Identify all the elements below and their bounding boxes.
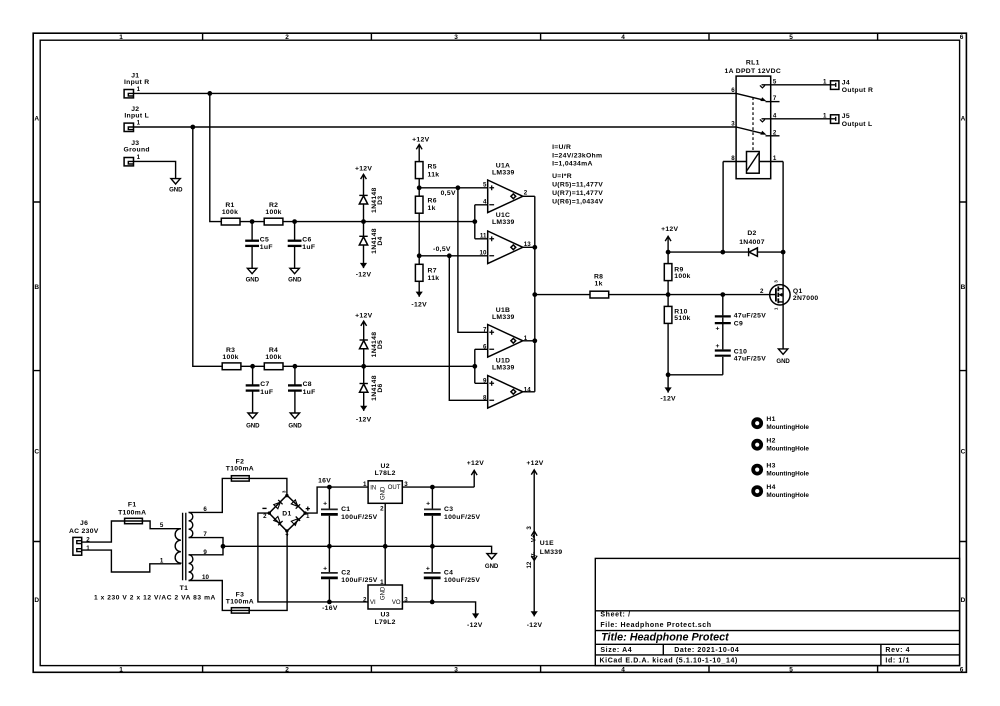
svg-text:1: 1 xyxy=(86,545,90,552)
svg-text:MountingHole: MountingHole xyxy=(766,470,809,477)
svg-text:RL1: RL1 xyxy=(746,59,760,66)
svg-text:+12V: +12V xyxy=(412,136,429,143)
svg-text:Size: A4: Size: A4 xyxy=(600,647,632,654)
svg-text:0,5V: 0,5V xyxy=(441,190,456,197)
svg-text:LM339: LM339 xyxy=(492,314,515,321)
svg-text:MountingHole: MountingHole xyxy=(766,492,809,499)
svg-text:1: 1 xyxy=(119,34,123,41)
svg-text:2: 2 xyxy=(380,505,384,512)
svg-text:LM339: LM339 xyxy=(492,219,515,226)
svg-text:T100mA: T100mA xyxy=(226,466,254,473)
svg-text:13: 13 xyxy=(524,241,531,248)
svg-text:LM339: LM339 xyxy=(540,549,563,556)
svg-text:3: 3 xyxy=(773,280,778,283)
svg-text:B: B xyxy=(961,284,966,291)
svg-text:1k: 1k xyxy=(595,281,603,288)
svg-text:AC 230V: AC 230V xyxy=(69,528,99,535)
svg-text:1uF: 1uF xyxy=(260,244,273,251)
svg-text:1A DPDT 12VDC: 1A DPDT 12VDC xyxy=(725,68,782,75)
svg-text:1: 1 xyxy=(137,120,141,127)
svg-text:C9: C9 xyxy=(734,321,743,328)
svg-text:-12V: -12V xyxy=(527,622,543,629)
svg-text:VI: VI xyxy=(370,600,376,606)
svg-text:7: 7 xyxy=(483,326,487,333)
svg-text:100uF/25V: 100uF/25V xyxy=(444,577,480,584)
svg-text:4: 4 xyxy=(621,666,625,673)
svg-text:D6: D6 xyxy=(377,383,384,392)
svg-text:+12V: +12V xyxy=(355,312,372,319)
svg-text:1: 1 xyxy=(773,307,778,310)
svg-text:-12V: -12V xyxy=(356,271,372,278)
svg-text:+: + xyxy=(426,501,430,508)
svg-text:2: 2 xyxy=(363,596,367,603)
svg-text:D: D xyxy=(961,597,966,604)
svg-text:D2: D2 xyxy=(747,230,756,237)
svg-text:11: 11 xyxy=(480,233,487,240)
svg-text:2: 2 xyxy=(773,129,777,136)
svg-text:GND: GND xyxy=(485,563,499,570)
svg-text:C: C xyxy=(34,448,39,455)
svg-text:GND: GND xyxy=(246,276,260,283)
svg-text:2: 2 xyxy=(263,513,267,520)
svg-text:3: 3 xyxy=(282,490,287,493)
svg-text:R8: R8 xyxy=(594,274,603,281)
svg-text:3: 3 xyxy=(454,666,458,673)
svg-text:File: Headphone Protect.sch: File: Headphone Protect.sch xyxy=(600,622,711,629)
svg-text:J4: J4 xyxy=(842,79,850,86)
svg-text:IN: IN xyxy=(370,485,376,491)
svg-text:6: 6 xyxy=(960,666,964,673)
svg-text:6: 6 xyxy=(960,34,964,41)
svg-text:47uF/25V: 47uF/25V xyxy=(734,313,766,320)
svg-text:H2: H2 xyxy=(766,438,775,445)
svg-text:12: 12 xyxy=(526,561,533,568)
svg-text:Id: 1/1: Id: 1/1 xyxy=(885,658,910,665)
svg-text:4: 4 xyxy=(483,199,487,206)
svg-text:R6: R6 xyxy=(428,198,437,205)
svg-text:-12V: -12V xyxy=(467,622,483,629)
svg-text:100k: 100k xyxy=(674,273,690,280)
svg-text:C4: C4 xyxy=(444,570,453,577)
svg-text:R3: R3 xyxy=(226,347,235,354)
svg-text:100k: 100k xyxy=(222,209,238,216)
svg-text:T1: T1 xyxy=(180,585,189,592)
svg-text:A: A xyxy=(34,116,39,123)
svg-text:2N7000: 2N7000 xyxy=(793,295,819,302)
svg-text:GND: GND xyxy=(381,486,387,500)
svg-text:+: + xyxy=(716,326,720,333)
svg-text:Sheet: /: Sheet: / xyxy=(600,612,630,619)
svg-text:R5: R5 xyxy=(428,164,437,171)
svg-text:L79L2: L79L2 xyxy=(375,619,396,626)
svg-text:-16V: -16V xyxy=(322,605,338,612)
svg-text:1: 1 xyxy=(773,155,777,162)
svg-text:5: 5 xyxy=(160,522,164,529)
svg-text:I=24V/23kOhm: I=24V/23kOhm xyxy=(552,153,602,160)
svg-text:MountingHole: MountingHole xyxy=(766,424,809,431)
svg-text:U(R7)=11,477V: U(R7)=11,477V xyxy=(552,190,603,197)
svg-text:3: 3 xyxy=(526,526,533,530)
svg-text:C5: C5 xyxy=(260,237,269,244)
svg-text:U(R6)=1,0434V: U(R6)=1,0434V xyxy=(552,199,603,206)
svg-text:+12V: +12V xyxy=(467,460,484,467)
svg-text:8: 8 xyxy=(483,394,487,401)
svg-text:+12V: +12V xyxy=(526,460,543,467)
svg-text:1: 1 xyxy=(823,112,827,119)
svg-text:100k: 100k xyxy=(222,354,238,361)
svg-text:1uF: 1uF xyxy=(302,244,315,251)
svg-text:-12V: -12V xyxy=(411,301,427,308)
svg-text:10: 10 xyxy=(480,250,487,257)
svg-text:Rev: 4: Rev: 4 xyxy=(885,647,910,654)
svg-text:Title: Headphone Protect: Title: Headphone Protect xyxy=(601,632,729,644)
svg-text:11k: 11k xyxy=(428,275,440,282)
svg-text:100uF/25V: 100uF/25V xyxy=(444,514,480,521)
svg-text:-0,5V: -0,5V xyxy=(433,246,451,253)
svg-text:100k: 100k xyxy=(265,354,281,361)
svg-text:5: 5 xyxy=(773,78,777,85)
svg-text:1: 1 xyxy=(823,78,827,85)
svg-text:H1: H1 xyxy=(766,416,775,423)
svg-text:J5: J5 xyxy=(842,113,850,120)
svg-text:KiCad E.D.A. kicad (5.1.10-1-: KiCad E.D.A. kicad (5.1.10-1-10_14) xyxy=(600,658,738,665)
svg-text:U=I*R: U=I*R xyxy=(552,173,572,180)
svg-text:Output R: Output R xyxy=(842,87,873,94)
svg-text:F3: F3 xyxy=(236,592,245,599)
svg-text:GND: GND xyxy=(381,586,387,600)
svg-text:5: 5 xyxy=(789,34,793,41)
svg-text:1uF: 1uF xyxy=(260,389,273,396)
svg-text:1: 1 xyxy=(119,666,123,673)
svg-text:2: 2 xyxy=(285,666,289,673)
svg-text:MountingHole: MountingHole xyxy=(766,446,809,453)
svg-text:1: 1 xyxy=(160,558,164,565)
svg-text:L78L2: L78L2 xyxy=(375,470,396,477)
svg-text:+: + xyxy=(426,566,430,573)
svg-text:GND: GND xyxy=(169,187,183,194)
svg-text:C8: C8 xyxy=(303,381,312,388)
svg-text:T100mA: T100mA xyxy=(118,509,146,516)
svg-text:1: 1 xyxy=(137,86,141,93)
svg-text:1: 1 xyxy=(524,335,528,342)
svg-text:D5: D5 xyxy=(377,340,384,349)
svg-text:LM339: LM339 xyxy=(492,170,515,177)
svg-text:1: 1 xyxy=(137,154,141,161)
svg-text:3: 3 xyxy=(454,34,458,41)
svg-text:47uF/25V: 47uF/25V xyxy=(734,356,766,363)
svg-text:OUT: OUT xyxy=(388,485,401,491)
svg-text:H4: H4 xyxy=(766,484,775,491)
svg-text:7: 7 xyxy=(773,95,777,102)
svg-text:6: 6 xyxy=(731,87,735,94)
svg-text:5: 5 xyxy=(789,666,793,673)
svg-text:F2: F2 xyxy=(236,458,245,465)
svg-text:100uF/25V: 100uF/25V xyxy=(341,577,377,584)
svg-text:R2: R2 xyxy=(269,202,278,209)
svg-text:2: 2 xyxy=(524,189,528,196)
svg-text:-12V: -12V xyxy=(660,395,676,402)
svg-text:+: + xyxy=(323,566,327,573)
svg-text:6: 6 xyxy=(483,343,487,350)
svg-text:1: 1 xyxy=(363,481,367,488)
svg-text:C6: C6 xyxy=(302,237,311,244)
svg-text:+12V: +12V xyxy=(661,226,678,233)
svg-text:D3: D3 xyxy=(377,196,384,205)
svg-text:VO: VO xyxy=(392,600,401,606)
svg-text:U3: U3 xyxy=(381,612,390,619)
svg-text:F1: F1 xyxy=(128,502,137,509)
svg-text:C: C xyxy=(961,448,966,455)
svg-text:C1: C1 xyxy=(341,506,350,513)
svg-text:3: 3 xyxy=(731,121,735,128)
svg-text:GND: GND xyxy=(288,276,302,283)
svg-text:4: 4 xyxy=(285,533,290,536)
svg-text:1 x 230 V 2 x 12 V/AC 2 VA 83: 1 x 230 V 2 x 12 V/AC 2 VA 83 mA xyxy=(94,595,216,602)
svg-text:+: + xyxy=(323,501,327,508)
svg-text:D: D xyxy=(34,597,39,604)
svg-text:1N4007: 1N4007 xyxy=(739,239,765,246)
svg-text:100uF/25V: 100uF/25V xyxy=(341,514,377,521)
svg-text:GND: GND xyxy=(288,422,302,429)
svg-text:R1: R1 xyxy=(225,202,234,209)
svg-text:C3: C3 xyxy=(444,506,453,513)
svg-text:100k: 100k xyxy=(265,209,281,216)
svg-text:I=U/R: I=U/R xyxy=(552,144,571,151)
svg-text:U2: U2 xyxy=(381,463,390,470)
svg-text:GND: GND xyxy=(776,358,790,365)
svg-text:B: B xyxy=(34,284,39,291)
svg-text:1uF: 1uF xyxy=(303,389,316,396)
svg-text:16V: 16V xyxy=(318,478,331,485)
svg-text:R7: R7 xyxy=(428,267,437,274)
svg-text:LM339: LM339 xyxy=(492,364,515,371)
svg-text:D1: D1 xyxy=(282,511,291,518)
svg-text:Ground: Ground xyxy=(124,147,150,154)
svg-text:2: 2 xyxy=(285,34,289,41)
svg-text:4: 4 xyxy=(773,112,777,119)
svg-text:2: 2 xyxy=(760,288,764,295)
svg-text:8: 8 xyxy=(731,155,735,162)
svg-text:5: 5 xyxy=(483,182,487,189)
svg-text:A: A xyxy=(961,116,966,123)
svg-text:GND: GND xyxy=(246,422,260,429)
svg-text:I=1,0434mA: I=1,0434mA xyxy=(552,161,593,168)
svg-text:14: 14 xyxy=(524,387,531,394)
svg-text:J6: J6 xyxy=(80,520,88,527)
svg-text:1k: 1k xyxy=(428,205,436,212)
svg-text:C7: C7 xyxy=(260,381,269,388)
svg-text:U1E: U1E xyxy=(540,540,554,547)
svg-text:H3: H3 xyxy=(766,462,775,469)
svg-text:U(R5)=11,477V: U(R5)=11,477V xyxy=(552,182,603,189)
svg-text:R4: R4 xyxy=(269,347,278,354)
svg-text:1: 1 xyxy=(380,579,384,586)
svg-text:Date: 2021-10-04: Date: 2021-10-04 xyxy=(674,647,739,654)
svg-text:11k: 11k xyxy=(428,171,440,178)
svg-text:4: 4 xyxy=(621,34,625,41)
svg-text:D4: D4 xyxy=(377,236,384,245)
svg-text:Output L: Output L xyxy=(842,121,873,128)
svg-text:T100mA: T100mA xyxy=(226,599,254,606)
svg-text:C2: C2 xyxy=(341,570,350,577)
svg-text:+: + xyxy=(716,343,720,350)
svg-text:+12V: +12V xyxy=(355,166,372,173)
svg-text:1: 1 xyxy=(306,513,310,520)
svg-text:510k: 510k xyxy=(674,315,690,322)
svg-text:-12V: -12V xyxy=(356,416,372,423)
svg-text:9: 9 xyxy=(483,377,487,384)
